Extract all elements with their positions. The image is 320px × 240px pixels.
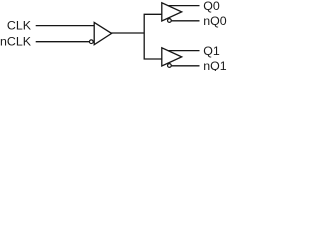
svg-text:nQ1: nQ1: [203, 59, 227, 71]
svg-text:Q0: Q0: [203, 0, 220, 13]
wire nQ1 output: [171, 65, 199, 67]
wire U1 output: [111, 32, 145, 34]
wire CLK input: [36, 25, 94, 27]
inversion bubble on U3 nQ1 output: [168, 64, 172, 68]
wire branch to U2 and U3 inputs: [144, 14, 162, 59]
svg-text:nCLK: nCLK: [0, 35, 32, 49]
buffer U1 triangle: [94, 22, 111, 44]
wire nQ0 output: [171, 20, 199, 22]
buffer U3 triangle: [162, 48, 182, 66]
inversion bubble on U2 nQ0 output: [168, 19, 172, 23]
svg-text:Q1: Q1: [203, 44, 220, 58]
buffer U2 triangle: [162, 3, 182, 21]
wire Q0 output: [168, 5, 200, 7]
svg-text:CLK: CLK: [7, 19, 32, 33]
wire nCLK input: [36, 41, 89, 43]
wire Q1 output: [168, 50, 200, 52]
svg-text:nQ0: nQ0: [203, 14, 227, 28]
inversion bubble on U1 nCLK input: [89, 40, 93, 44]
